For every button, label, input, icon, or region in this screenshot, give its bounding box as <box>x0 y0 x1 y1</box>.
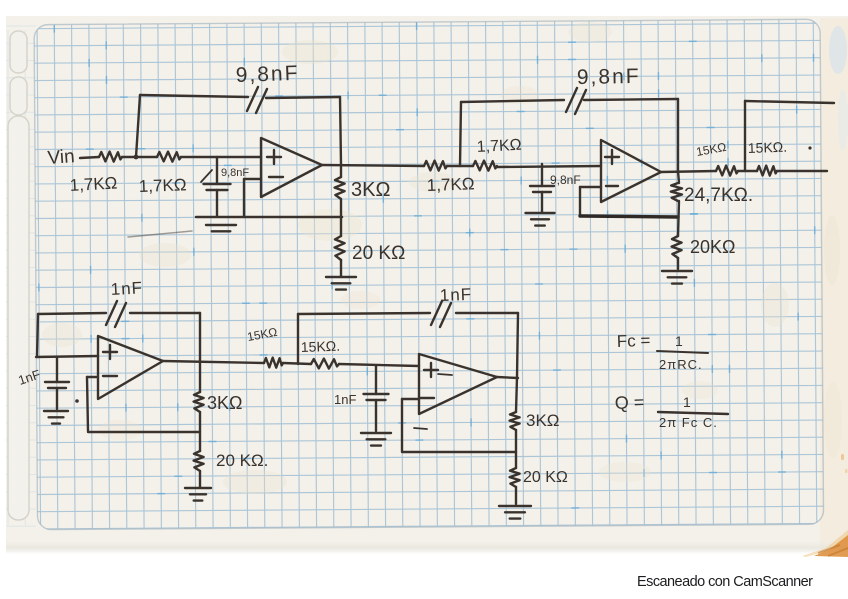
paper bottom edge shadow <box>6 540 848 554</box>
wire U1 output <box>322 165 424 166</box>
capacitor C7 1nF plates <box>364 393 389 395</box>
resistor R4 20K (stage1) <box>335 236 345 260</box>
U4 - input symbol <box>420 397 434 399</box>
svg-text:1nF: 1nF <box>334 392 356 407</box>
wire U3 output <box>163 361 264 363</box>
U4 + input symbol <box>424 369 438 371</box>
svg-text:15KΩ.: 15KΩ. <box>748 139 788 156</box>
U2 - input symbol <box>606 185 618 187</box>
wire top-right horizontal <box>745 101 834 103</box>
svg-text:3KΩ: 3KΩ <box>207 393 242 413</box>
svg-text:1: 1 <box>683 394 691 410</box>
wire R12 to ground <box>199 471 201 487</box>
resistor R11 3K (stage3) <box>194 392 204 412</box>
wire R13 to node D <box>283 363 311 364</box>
wire feedback left vertical (node A up) <box>136 95 140 157</box>
graph paper grid <box>34 19 824 529</box>
op-amp U3 <box>98 336 163 399</box>
svg-text:20 KΩ: 20 KΩ <box>523 469 568 486</box>
svg-text:1nF: 1nF <box>439 285 472 305</box>
capacitor C2 9,8nF feedback slashes <box>247 87 258 111</box>
stray pencil line <box>128 231 192 237</box>
stray dot stage3 <box>75 399 79 403</box>
wire bottom rail (stage1) <box>196 216 342 219</box>
U1 + input symbol <box>267 156 281 158</box>
stray tick <box>414 428 427 429</box>
wire U4 output <box>497 377 518 378</box>
resistor R9 15K <box>716 166 738 176</box>
wire R14 to U4 <box>339 364 419 366</box>
svg-text:9,8nF: 9,8nF <box>235 62 299 87</box>
svg-text:24,7KΩ.: 24,7KΩ. <box>684 185 753 206</box>
wire output node down to R3 <box>340 166 342 177</box>
resistor R7 24,7K <box>671 183 682 201</box>
svg-text:9,8nF: 9,8nF <box>550 173 581 187</box>
wire Vin to R1 <box>80 157 99 158</box>
svg-text:Q =: Q = <box>614 392 644 413</box>
resistor R10 15K <box>757 166 777 176</box>
resistor R3 3K (stage1) <box>335 177 345 199</box>
ground under C7 <box>361 432 391 434</box>
wire R11 to R12 <box>199 412 201 451</box>
wire C3 to ground <box>541 192 543 212</box>
capacitor C1 9,8nF plates <box>204 183 231 185</box>
svg-text:15KΩ.: 15KΩ. <box>301 338 341 355</box>
wire bottom rail (stage4) <box>402 451 516 453</box>
wire U2 - to rail <box>580 186 601 188</box>
wire feedback top (stage3) <box>38 313 106 314</box>
svg-text:2π Fc C.: 2π Fc C. <box>659 415 718 430</box>
svg-text:Fc =: Fc = <box>616 331 650 351</box>
wire R1 to R2 with node A junction <box>122 156 157 158</box>
svg-text:1,7KΩ: 1,7KΩ <box>69 174 118 195</box>
wire feedback top (stage4) <box>298 313 430 314</box>
wire R15 to R16 <box>515 430 517 468</box>
wire R9 to R10 node C <box>738 170 757 172</box>
wire C5 to ground <box>56 388 58 409</box>
ground stage3 divider <box>185 487 211 489</box>
op-amp U4 <box>419 354 497 414</box>
wire C7 to ground <box>375 400 377 431</box>
ground under C3 <box>526 212 555 214</box>
svg-text:9,8nF: 9,8nF <box>221 167 249 179</box>
wire R16 to ground <box>515 487 517 504</box>
wire U2 output <box>661 171 716 172</box>
ground stage1 divider <box>326 276 356 278</box>
wire node D up to stage4 feedback <box>297 314 299 364</box>
resistor R1 1,7K (stage1) <box>99 152 122 162</box>
wire input to U3 <box>36 356 98 357</box>
wire feedback top (stage2) <box>461 100 564 102</box>
resistor R6 1,7K (stage2) <box>473 161 497 171</box>
wire output node down <box>516 377 517 412</box>
resistor R14 15K (stage4 input) <box>311 359 339 369</box>
svg-text:1nF: 1nF <box>110 278 143 299</box>
orange scan smear bottom-right corner <box>802 530 848 557</box>
U3 - input symbol <box>103 375 117 377</box>
svg-text:20KΩ: 20KΩ <box>690 237 735 257</box>
ground stage4 divider <box>499 505 531 507</box>
wire R5 to R6 with node B <box>447 165 473 167</box>
U3 + input symbol <box>103 351 117 353</box>
wire node C up <box>744 101 746 171</box>
notebook edge tabs (scan artifact) <box>10 31 27 73</box>
capacitor C5 1nF plates <box>45 381 69 383</box>
svg-text:1,7KΩ: 1,7KΩ <box>476 137 522 156</box>
resistor R15 3K (stage4) <box>510 412 520 430</box>
capacitor C6 1nF slashes <box>106 301 117 325</box>
wire feedback right vertical stage3 <box>199 313 201 392</box>
wire R3 to R4 <box>340 199 342 236</box>
svg-text:9,8nF: 9,8nF <box>577 65 641 89</box>
svg-text:20 KΩ: 20 KΩ <box>352 243 405 264</box>
svg-text:20 KΩ.: 20 KΩ. <box>216 451 268 470</box>
wire feedback left vertical stage2 <box>460 102 461 166</box>
resistor R12 20K (stage3) <box>194 451 204 471</box>
wire cap C7 branch <box>375 366 377 394</box>
wire R10 to right edge <box>777 170 827 172</box>
wire R6 to op-amp U2 <box>497 166 601 167</box>
svg-text:3KΩ: 3KΩ <box>526 411 560 430</box>
ground stage2 divider <box>662 270 692 272</box>
resistor R8 20K (stage2) <box>672 236 682 258</box>
svg-text:2πRC.: 2πRC. <box>659 357 703 372</box>
op-amp U1 <box>261 138 322 197</box>
wire R2 to op-amp U1 + input <box>181 156 261 158</box>
wire cap C1 to bottom rail <box>216 190 218 216</box>
wire bottom rail (stage2) <box>580 216 678 217</box>
capacitor C4 9,8nF feedback slashes <box>566 88 577 112</box>
node A junction dot <box>134 155 139 160</box>
left margin faint grid <box>6 26 36 526</box>
U2 + input symbol <box>605 156 619 158</box>
svg-text:3KΩ: 3KΩ <box>351 179 390 201</box>
svg-text:Escaneado con CamScanner: Escaneado con CamScanner <box>637 574 813 590</box>
wire U2 output node down <box>678 171 679 183</box>
wire R8 to ground <box>677 258 679 269</box>
op-amp U2 <box>601 140 661 202</box>
U1 - input symbol <box>269 176 283 178</box>
svg-text:1,7KΩ: 1,7KΩ <box>138 175 186 196</box>
ground under C5 <box>44 410 68 412</box>
wire feedback right vertical stage4 <box>517 313 518 377</box>
paper mottling <box>282 40 338 64</box>
svg-text:1: 1 <box>675 333 683 349</box>
wire cap C1 branch down <box>216 157 218 184</box>
resistor R16 20K (stage4) <box>510 468 520 487</box>
wire U1 - input to bottom rail <box>244 178 261 180</box>
wire U3 - to rail <box>87 376 98 378</box>
ground under C1 <box>206 224 236 226</box>
stray dot <box>808 146 811 149</box>
wire R7 to R8 <box>678 201 679 236</box>
wire bottom rail (stage3) <box>88 431 200 433</box>
resistor R2 1,7K (stage1) <box>157 152 181 162</box>
svg-text:Vin: Vin <box>47 146 76 169</box>
wire cap C5 branch <box>56 357 58 382</box>
wire feedback left vertical stage3 <box>37 314 38 357</box>
wire feedback top (stage1) <box>140 95 248 97</box>
capacitor C3 9,8nF plates <box>530 185 554 187</box>
wire feedback right vertical to U2 output <box>677 99 679 171</box>
wire U4 - to rail <box>402 398 419 400</box>
wire feedback right vertical to U1 output <box>340 97 341 164</box>
capacitor C8 1nF slashes <box>431 301 442 325</box>
wire R4 to ground <box>340 260 342 276</box>
wire cap C3 branch <box>541 164 543 186</box>
resistor R5 1,7K (stage2 input) <box>424 161 447 171</box>
svg-text:1,7KΩ: 1,7KΩ <box>426 174 474 195</box>
resistor R13 15K <box>264 358 283 368</box>
